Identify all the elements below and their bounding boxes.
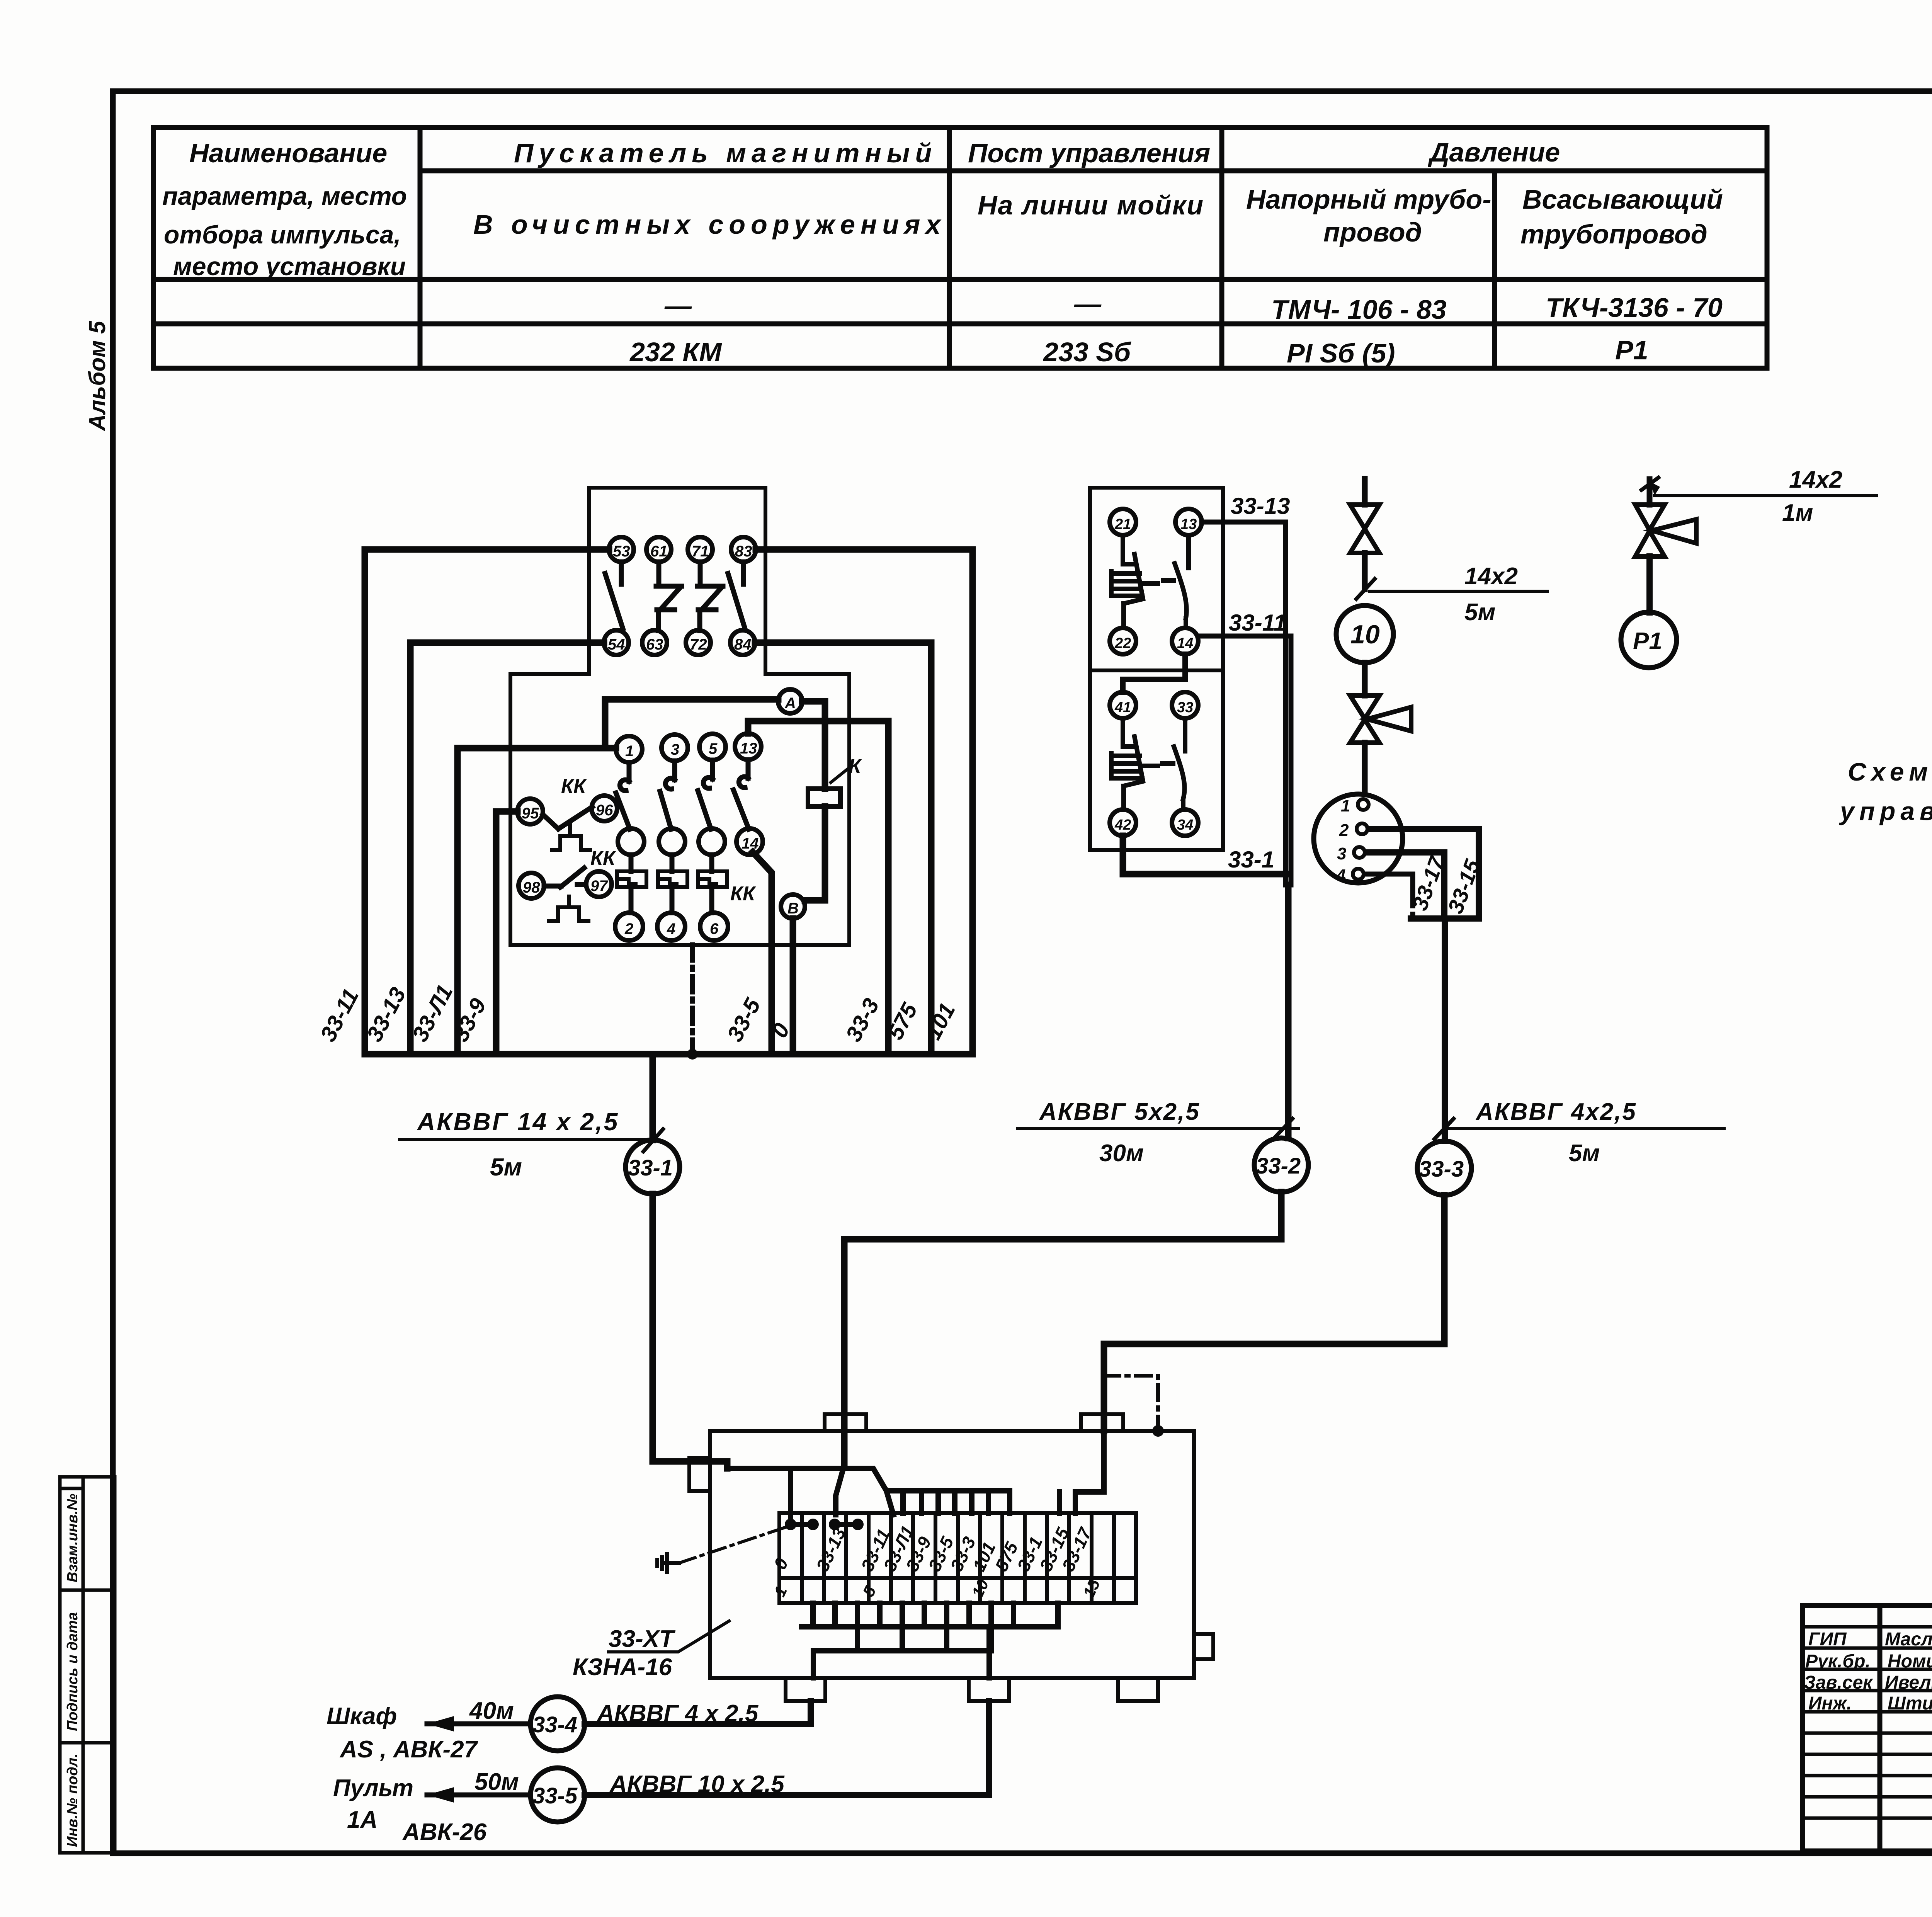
svg-text:Масленников: Масленников — [1885, 1629, 1932, 1650]
bottom connection bus — [365, 1051, 973, 1058]
parameter table top — [153, 128, 1767, 368]
main pole contacts with hooks — [616, 760, 749, 913]
thermal relay contact 98-97 — [519, 868, 612, 921]
P1 impulse tick — [1647, 479, 1653, 505]
svg-text:Пускатель магнитный: Пускатель магнитный — [514, 138, 937, 168]
svg-text:трубопровод: трубопровод — [1520, 219, 1708, 249]
svg-text:ГИП: ГИП — [1808, 1629, 1847, 1650]
svg-text:14х2: 14х2 — [1464, 563, 1518, 590]
link 14 to 41 — [1123, 654, 1185, 692]
svg-text:33-13: 33-13 — [1231, 493, 1290, 519]
terminal strip K3HA-16 — [779, 1513, 1136, 1603]
svg-text:АКВВГ 4 х 2,5: АКВВГ 4 х 2,5 — [596, 1700, 759, 1727]
P1 valve with actuator — [1635, 505, 1696, 556]
svg-text:5м: 5м — [1464, 599, 1495, 626]
title block outline — [1803, 1606, 1932, 1851]
svg-text:13: 13 — [740, 740, 757, 757]
wire 33-11 run: bus to terminal 53 and on to 101 drop — [365, 549, 973, 1054]
rotated wire labels at bus — [315, 981, 960, 1046]
overload element circles — [618, 828, 725, 855]
svg-text:13: 13 — [1180, 516, 1197, 532]
svg-text:33-1: 33-1 — [628, 1155, 673, 1180]
svg-text:14: 14 — [742, 835, 759, 852]
svg-text:3: 3 — [1337, 844, 1346, 863]
svg-text:Пост управления: Пост управления — [968, 138, 1210, 168]
svg-text:параметра, место: параметра, место — [162, 182, 407, 210]
magnetic starter 232KM enclosure outline — [510, 488, 849, 945]
svg-text:ТМЧ- 106 - 83: ТМЧ- 106 - 83 — [1271, 294, 1447, 325]
svg-text:К: К — [849, 755, 862, 777]
svg-text:96: 96 — [596, 802, 613, 819]
svg-text:1м: 1м — [1782, 500, 1813, 526]
svg-text:63: 63 — [646, 636, 663, 653]
cable circle 33-3 — [1417, 1141, 1471, 1195]
svg-text:РI Sб (5): РI Sб (5) — [1287, 338, 1395, 368]
svg-text:21: 21 — [1114, 516, 1131, 532]
svg-text:101: 101 — [920, 999, 960, 1044]
wire 33-5 run from aux contact 14 — [753, 852, 772, 1054]
aux contact pole 83-84 — [728, 562, 745, 629]
svg-text:33-11: 33-11 — [1229, 610, 1286, 636]
ground symbol — [657, 1554, 679, 1572]
svg-text:84: 84 — [734, 636, 752, 653]
svg-text:Подпись и дата: Подпись и дата — [65, 1612, 81, 1731]
svg-text:1: 1 — [625, 743, 634, 760]
cable 33-1 drop with marker — [653, 1054, 727, 1468]
svg-text:КЗНА-16: КЗНА-16 — [573, 1654, 672, 1681]
svg-text:33-1: 33-1 — [1228, 847, 1274, 873]
svg-text:61: 61 — [650, 543, 668, 560]
svg-text:5м: 5м — [490, 1153, 522, 1181]
svg-text:АКВВГ 4х2,5: АКВВГ 4х2,5 — [1475, 1099, 1637, 1125]
svg-text:33-11: 33-11 — [315, 985, 364, 1046]
svg-text:КК: КК — [590, 847, 616, 869]
svg-text:14х2: 14х2 — [1789, 466, 1842, 493]
push-button terminals — [1110, 509, 1202, 836]
svg-text:33-4: 33-4 — [532, 1712, 577, 1737]
start contact 13-14 — [1163, 535, 1189, 628]
wire 33-13 from button 13 — [1202, 522, 1286, 885]
svg-text:33-5: 33-5 — [532, 1783, 578, 1808]
svg-text:Штидт: Штидт — [1888, 1693, 1932, 1714]
svg-text:отбора импульса,: отбора импульса, — [164, 220, 401, 249]
svg-text:1: 1 — [1341, 796, 1350, 815]
svg-text:97: 97 — [590, 878, 608, 895]
svg-text:Номин: Номин — [1888, 1651, 1932, 1672]
svg-text:83: 83 — [735, 543, 752, 560]
KK heater elements — [617, 871, 727, 887]
svg-text:Давление: Давление — [1428, 137, 1560, 167]
wire 33-L1 run: bus to terminal 1, tee up to node A, K coil feed — [457, 748, 616, 1054]
left attribute strip table — [60, 1477, 115, 1853]
shut-off valve — [1350, 505, 1379, 553]
svg-text:Инж.: Инж. — [1808, 1693, 1852, 1714]
svg-text:КК: КК — [730, 883, 756, 905]
pressure gauge P1 — [1621, 612, 1677, 668]
switch wiring loop 33-15 / 33-17 — [1366, 829, 1479, 1141]
strip jumpers with dots — [791, 1522, 858, 1527]
wire 33-11 from button 14 — [1198, 636, 1291, 885]
svg-text:4: 4 — [667, 920, 675, 937]
svg-text:Всасывающий: Всасывающий — [1522, 184, 1723, 214]
wire K coil to node B and 0 run to bus — [805, 806, 825, 900]
svg-text:4: 4 — [1336, 866, 1345, 885]
svg-text:КК: КК — [561, 775, 587, 798]
title block signature rows — [1803, 1627, 1932, 1818]
power terminals row 1-3-5-13 — [615, 733, 763, 941]
spare core dash branch with junction — [1104, 1376, 1158, 1429]
switch terminals 1-4 — [1336, 796, 1369, 885]
svg-text:54: 54 — [608, 636, 625, 653]
contactor coil K — [808, 789, 840, 806]
node B — [781, 895, 805, 919]
cable run 33-2 to terminal box — [844, 1192, 1281, 1465]
internal entry of cable 33-2 — [836, 1465, 844, 1515]
svg-text:Ивельская: Ивельская — [1885, 1672, 1932, 1693]
svg-text:34: 34 — [1177, 817, 1193, 833]
svg-text:—: — — [664, 291, 692, 321]
svg-text:33-3: 33-3 — [841, 994, 884, 1046]
push-button post enclosure — [1090, 488, 1223, 850]
svg-text:Шкаф: Шкаф — [327, 1703, 397, 1730]
svg-text:40м: 40м — [469, 1698, 514, 1724]
aux contact pole 53-54 — [605, 562, 745, 631]
pressure switch body — [1314, 794, 1403, 883]
svg-text:22: 22 — [1114, 635, 1131, 651]
svg-text:АВК-26: АВК-26 — [402, 1819, 487, 1846]
PE dash-dot drop — [690, 945, 695, 1054]
cable label АКВВГ 5х2,5 / 30м — [1017, 1127, 1299, 1130]
pressure gauge 10 — [1336, 606, 1393, 663]
svg-text:2: 2 — [624, 920, 633, 937]
cable label АКВВГ 4х2,5 / 5м — [1449, 1127, 1724, 1130]
aux contact pole 71-72 — [697, 562, 723, 631]
below-strip wiring to outgoing cables — [802, 1603, 1058, 1678]
svg-text:33-13: 33-13 — [362, 983, 411, 1046]
svg-text:5м: 5м — [1569, 1140, 1600, 1167]
outgoing cable 33-5 to console 1A — [585, 1701, 989, 1795]
svg-text:53: 53 — [613, 543, 630, 560]
stop button 21-22 mushroom contact — [1111, 535, 1158, 628]
svg-text:2: 2 — [1339, 821, 1349, 840]
svg-text:Пульт: Пульт — [333, 1775, 413, 1801]
note text — [1839, 757, 1932, 825]
svg-text:5: 5 — [709, 740, 718, 757]
svg-text:98: 98 — [523, 879, 540, 896]
KK labels — [561, 775, 756, 905]
svg-text:1А: 1А — [347, 1806, 378, 1833]
svg-text:50м: 50м — [474, 1769, 519, 1795]
svg-text:33-13: 33-13 — [812, 1524, 850, 1574]
svg-text:6: 6 — [710, 920, 719, 937]
control valve with actuator — [1350, 696, 1411, 743]
start contact 33-34 — [1162, 718, 1185, 810]
stop button 41-42 mushroom contact — [1111, 718, 1158, 810]
cable run 33-3 to terminal box — [1104, 1195, 1444, 1431]
svg-text:Наименование: Наименование — [189, 138, 387, 168]
svg-text:95: 95 — [522, 805, 539, 822]
svg-text:232 КМ: 232 КМ — [629, 337, 722, 367]
svg-text:место установки: место установки — [173, 252, 406, 281]
svg-text:33-2: 33-2 — [1256, 1153, 1301, 1179]
svg-text:Инв.№ подл.: Инв.№ подл. — [65, 1754, 81, 1847]
svg-text:Альбом 5: Альбом 5 — [84, 320, 110, 432]
svg-text:33-Л1: 33-Л1 — [407, 981, 458, 1046]
aux pole 13-14 and 33-5 tap — [733, 760, 749, 829]
wire 33-9 run: bus to contact 95 — [496, 811, 517, 1054]
svg-text:AS , АВК-27: AS , АВК-27 — [339, 1736, 478, 1763]
svg-text:Р1: Р1 — [1633, 628, 1662, 655]
svg-text:33-5: 33-5 — [722, 994, 765, 1046]
svg-text:Напорный трубо-: Напорный трубо- — [1246, 184, 1491, 214]
svg-text:АКВВГ 10 х 2,5: АКВВГ 10 х 2,5 — [609, 1771, 785, 1798]
svg-text:ТКЧ-3136 - 70: ТКЧ-3136 - 70 — [1546, 293, 1723, 323]
svg-text:42: 42 — [1114, 817, 1131, 833]
svg-text:Зав.сек: Зав.сек — [1804, 1672, 1873, 1693]
svg-text:10: 10 — [1350, 620, 1380, 649]
svg-text:—: — — [1074, 289, 1102, 319]
ground dash-dot link — [679, 1526, 788, 1563]
svg-text:В очистных сооружениях: В очистных сооружениях — [473, 209, 946, 240]
svg-text:АКВВГ 5х2,5: АКВВГ 5х2,5 — [1039, 1099, 1200, 1125]
svg-text:33: 33 — [1177, 699, 1193, 716]
wire 33-1 from button 42 — [1123, 836, 1286, 874]
terminal box 33-XT enclosure — [689, 1414, 1213, 1701]
impulse line top — [1362, 479, 1368, 505]
svg-text:АКВВГ 14 х 2,5: АКВВГ 14 х 2,5 — [417, 1108, 619, 1136]
svg-text:Р1: Р1 — [1615, 335, 1648, 365]
svg-text:71: 71 — [692, 543, 709, 560]
svg-text:провод: провод — [1323, 217, 1422, 247]
wire 33-13 run: bus to 54 and on to 575 drop — [410, 643, 604, 1054]
cable run down to 33-2 — [1285, 885, 1292, 1138]
aux contact terminals top row — [604, 537, 756, 655]
strip terminal numbers — [770, 1576, 1104, 1601]
wire 33-3 run: terminal 13 up and over to bus — [748, 721, 888, 1054]
cable circle 33-2 — [1254, 1138, 1308, 1192]
aux contact pole 61-63 — [656, 562, 682, 631]
svg-text:233 Sб: 233 Sб — [1043, 337, 1131, 367]
cable label АКВВГ 14 х 2,5 / 5м — [400, 1138, 653, 1141]
svg-text:33-ХТ: 33-ХТ — [609, 1626, 676, 1652]
svg-text:41: 41 — [1114, 699, 1131, 716]
svg-text:33-3: 33-3 — [1419, 1157, 1464, 1182]
svg-text:Взам.инв.№: Взам.инв.№ — [65, 1493, 81, 1582]
cable circle 33-1 — [626, 1140, 680, 1194]
label 33-XT / K3HA-16 — [573, 1626, 676, 1681]
leader and label 14х2 1м — [1655, 494, 1877, 497]
strip core labels — [770, 1522, 1096, 1574]
svg-text:А: А — [784, 695, 796, 712]
svg-text:14: 14 — [1177, 635, 1193, 651]
cable break marker and label 14х2 5м — [1356, 579, 1375, 599]
svg-text:Схема выполнена на основании с: Схема выполнена на основании схемы — [1848, 757, 1932, 786]
internal fan-out of cable 33-1 — [727, 1468, 1010, 1519]
node A — [778, 689, 802, 713]
svg-text:управления лист АВК-9.: управления лист АВК-9. — [1839, 797, 1932, 825]
svg-text:На линии мойки: На линии мойки — [978, 190, 1204, 220]
svg-text:72: 72 — [690, 636, 707, 653]
outgoing cable 33-4 to cabinet AS — [585, 1701, 811, 1724]
svg-text:Рук.бр.: Рук.бр. — [1805, 1651, 1871, 1672]
svg-text:3: 3 — [671, 741, 679, 758]
svg-text:30м: 30м — [1099, 1140, 1144, 1167]
rotated strip labels — [65, 1493, 81, 1847]
svg-text:В: В — [787, 900, 799, 917]
thermal relay contact 95-96 — [517, 796, 617, 850]
internal entry of cable 33-3 — [1060, 1431, 1104, 1513]
